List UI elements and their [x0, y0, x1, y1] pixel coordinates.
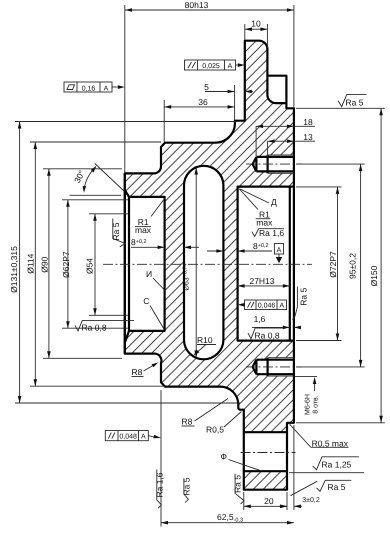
dimension 8+0,2 left [131, 237, 199, 249]
M6 tapped hole top [246, 155, 302, 173]
svg-text:R8: R8 [132, 367, 143, 377]
label M6-6H 8 holes (rotated) [295, 376, 320, 415]
dimension 27H13 [238, 276, 290, 288]
svg-text:M6-6H: M6-6H [305, 394, 312, 415]
roughness Ra 0,8 hub bore [75, 321, 134, 333]
dimension O72P7 [296, 187, 342, 341]
svg-text:27H13: 27H13 [249, 276, 274, 286]
main axis centerline [103, 263, 312, 265]
hub bore chamfer shoulder line [128, 197, 130, 331]
svg-text:A: A [228, 63, 233, 70]
roughness Ra 5 flange OD [338, 95, 367, 108]
svg-text:Ø150: Ø150 [369, 265, 379, 286]
svg-text:Ø114: Ø114 [25, 253, 35, 273]
label F hole [221, 451, 262, 471]
dimension 18 (hole depth) [256, 117, 315, 156]
svg-text:Д: Д [271, 197, 277, 207]
svg-text:Ø90: Ø90 [40, 256, 50, 272]
roughness Ra 5 rotated (web bottom) [181, 477, 191, 502]
part section body: hatched fill with voids [125, 41, 294, 490]
recess bottom face line [289, 187, 291, 341]
svg-text:Ra 0,8: Ra 0,8 [82, 323, 107, 333]
hub bore outline with entry chamfers [125, 190, 165, 343]
dimension 36 [164, 97, 234, 142]
svg-text:A: A [141, 434, 146, 441]
roughness Ra 1,6 rotated (62,5 face) [155, 470, 165, 509]
svg-text:Ø54: Ø54 [85, 258, 95, 274]
label R8 web fillet [182, 399, 229, 427]
label R0,5 max [290, 424, 349, 448]
roughness Ra 5 rotated (boss left face) [232, 474, 244, 504]
flange recess O72 outline [238, 187, 294, 341]
hub left face full line [124, 173, 126, 353]
svg-text:8 отв.: 8 отв. [312, 395, 319, 414]
central stadium window [184, 166, 223, 360]
label R0,5 [206, 412, 242, 435]
svg-text:5: 5 [204, 82, 209, 92]
dimension O62P7 [61, 200, 128, 328]
label R10 window [194, 335, 217, 356]
svg-text:Ra 1,6: Ra 1,6 [155, 472, 165, 497]
dimension O63+0,74 (window) [182, 168, 198, 358]
svg-text:10: 10 [251, 19, 261, 29]
svg-text:Ra 5: Ra 5 [232, 475, 242, 493]
svg-text:Ra 0,8: Ra 0,8 [255, 331, 280, 341]
svg-text:0,048: 0,048 [119, 434, 137, 441]
svg-text:20: 20 [264, 496, 274, 506]
svg-text:И: И [146, 269, 152, 279]
roughness Ra 0,8 recess bottom [248, 328, 284, 341]
svg-text:Ø62P7: Ø62P7 [61, 251, 71, 278]
svg-text:0,046: 0,046 [258, 303, 276, 310]
svg-text:max: max [256, 217, 273, 227]
label R8 hub fillet [132, 363, 159, 378]
label D (surface) [240, 189, 277, 207]
svg-text:Ra 1,6: Ra 1,6 [259, 228, 284, 238]
svg-text:Ra 5: Ra 5 [346, 98, 364, 108]
svg-text:95±0,2: 95±0,2 [348, 253, 358, 279]
svg-text:Ra 5: Ra 5 [181, 477, 191, 495]
svg-text:A: A [277, 247, 282, 254]
dimension 95+-0,2 bolt circle [296, 164, 365, 367]
roughness Ra 1,25 bottom right [289, 457, 364, 473]
boss hole axis [241, 452, 296, 454]
dimension 62,5-0,3 [161, 390, 294, 527]
dimension O54 [85, 214, 129, 315]
dimension 8+0,2 right with datum A [207, 241, 284, 263]
label R1 max left [135, 198, 165, 235]
part outer profile thick stroke [125, 41, 294, 490]
dimension O114 [25, 142, 165, 386]
svg-text:R0,5: R0,5 [206, 425, 224, 435]
svg-text:36: 36 [198, 97, 208, 107]
label I (surface) [146, 269, 166, 291]
dimension 1,6 recess [252, 314, 301, 329]
dimension 80h13 [125, 0, 294, 173]
svg-text:80h13: 80h13 [185, 0, 209, 10]
tolerance frame 0,046 A [238, 300, 287, 310]
svg-text:A: A [104, 85, 109, 92]
M6 tapped hole bottom [246, 358, 302, 376]
svg-text:13: 13 [303, 132, 313, 142]
label R1 max right [239, 189, 273, 228]
svg-text:R8: R8 [182, 417, 193, 427]
svg-text:С: С [143, 296, 149, 306]
svg-text:18: 18 [303, 117, 313, 127]
svg-text:3±0,2: 3±0,2 [302, 497, 320, 504]
dimension 10 (top boss) [245, 19, 268, 49]
roughness Ra 5 rotated (flange right face) [293, 287, 309, 320]
svg-text:Ra 1,25: Ra 1,25 [322, 460, 352, 470]
dimension 20 bottom boss [244, 492, 287, 510]
angle 30 chamfer dim [70, 164, 125, 196]
dimension O150 [296, 108, 385, 423]
dimension O131 [9, 122, 240, 404]
bottom boss hole band [244, 431, 287, 433]
svg-text:Ø72P7: Ø72P7 [328, 251, 338, 278]
tolerance frame 0,048 A [105, 431, 161, 441]
svg-text:R10: R10 [197, 335, 213, 345]
tolerance frame 0,16 A [64, 82, 125, 92]
svg-text:Ra 5: Ra 5 [328, 482, 346, 492]
dimension 5 (boss ledge) [204, 82, 253, 120]
dimension 3+-0,2 step [279, 425, 320, 510]
svg-text:Ra 5: Ra 5 [298, 288, 308, 306]
roughness Ra 1,6 recess top [252, 228, 284, 238]
roughness Ra 5 hub face (rotated) [111, 219, 126, 247]
svg-text:1,6: 1,6 [254, 314, 266, 324]
svg-text:0,16: 0,16 [82, 85, 96, 92]
svg-text:Ø131±0,315: Ø131±0,315 [9, 246, 19, 293]
roughness Ra 5 bottom right [291, 480, 352, 495]
dimension O90 [40, 169, 122, 358]
svg-text:0,025: 0,025 [202, 63, 220, 70]
label C (surface) [143, 296, 164, 329]
boss notch outline [267, 76, 286, 103]
svg-text:Ф: Ф [221, 451, 227, 461]
svg-text:Ra 5: Ra 5 [111, 222, 121, 240]
svg-text:max: max [135, 225, 152, 235]
dimension 13 (thread depth) [268, 132, 315, 157]
svg-text:A: A [279, 303, 284, 310]
tolerance frame 0,025 A [185, 60, 245, 70]
